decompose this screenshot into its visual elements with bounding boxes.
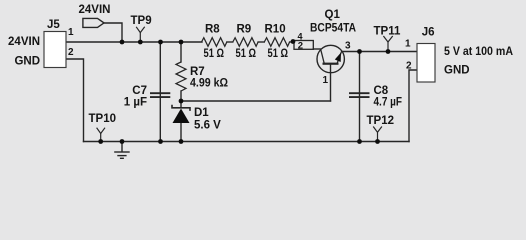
resistor R9 xyxy=(233,24,258,61)
ground xyxy=(114,142,130,159)
svg-text:GND: GND xyxy=(444,65,470,77)
svg-text:TP12: TP12 xyxy=(367,115,395,127)
svg-text:C7: C7 xyxy=(132,85,147,97)
wire: R9-R10 link xyxy=(258,41,264,43)
wire: R10 to collector node xyxy=(290,41,294,43)
test point TP9 xyxy=(131,15,152,42)
node: 24VIN flag junction xyxy=(120,40,125,45)
TP11 symbol xyxy=(383,36,392,42)
svg-text:1 µF: 1 µF xyxy=(124,97,147,109)
R7 zigzag xyxy=(176,62,186,91)
node: C7 top junction xyxy=(158,40,163,45)
Q1 body circle xyxy=(317,45,344,72)
node: TP11 junction xyxy=(386,49,391,54)
svg-text:5.6 V: 5.6 V xyxy=(194,120,221,132)
node: TP10 junction xyxy=(98,139,103,144)
svg-text:D1: D1 xyxy=(194,107,209,119)
svg-text:4.7 µF: 4.7 µF xyxy=(374,97,403,109)
svg-text:2: 2 xyxy=(68,47,74,58)
resistor R7 xyxy=(176,62,228,91)
node: C7 bottom junction xyxy=(158,139,163,144)
node: D1 bottom junction xyxy=(179,139,184,144)
base bar xyxy=(323,63,339,65)
wire: R7 bottom to node xyxy=(180,91,182,101)
wire: R8-R9 link xyxy=(227,41,233,43)
svg-text:BCP54TA: BCP54TA xyxy=(310,23,356,35)
svg-text:2: 2 xyxy=(406,60,412,71)
svg-text:2: 2 xyxy=(298,41,303,52)
wire: C8 branch xyxy=(359,52,361,142)
svg-text:24VIN: 24VIN xyxy=(8,36,40,48)
zener diode D1 xyxy=(172,105,221,132)
connector J5 xyxy=(8,19,74,68)
test point TP12 xyxy=(367,115,395,142)
svg-text:C8: C8 xyxy=(374,85,389,97)
wire: 24VIN flag to rail xyxy=(104,23,122,42)
svg-text:R7: R7 xyxy=(190,66,205,78)
node: TP12 junction xyxy=(375,139,380,144)
svg-text:4.99 kΩ: 4.99 kΩ xyxy=(190,78,228,90)
transistor Q1 xyxy=(310,9,356,86)
flag symbol xyxy=(83,18,104,27)
resistor R10 xyxy=(264,24,289,61)
D1 anode triangle xyxy=(173,109,190,124)
C8 plates xyxy=(349,93,370,97)
R8 zigzag xyxy=(202,38,227,47)
svg-text:TP9: TP9 xyxy=(131,15,152,27)
wire: base node to D1 node xyxy=(181,100,331,102)
C7 plates xyxy=(150,93,170,97)
emitter lead with arrow xyxy=(337,51,342,64)
node: ground junction xyxy=(120,139,125,144)
test point TP11 xyxy=(374,26,401,52)
collector lead xyxy=(321,49,325,64)
node: TP9 junction xyxy=(138,40,143,45)
junction dots xyxy=(98,39,390,144)
power flag 24VIN xyxy=(79,4,111,28)
svg-text:51 Ω: 51 Ω xyxy=(204,48,225,60)
D1 cathode zener bar xyxy=(172,105,190,111)
J5 body xyxy=(44,32,66,68)
pin tie box xyxy=(294,41,313,50)
node: C8 top junction xyxy=(357,49,362,54)
svg-text:5 V at 100 mA: 5 V at 100 mA xyxy=(444,46,513,58)
test point TP10 xyxy=(89,113,117,142)
wire: J5 pin2 to bottom rail xyxy=(66,59,84,142)
Q1 collector pins 4/2 tie box xyxy=(294,31,313,51)
svg-text:Q1: Q1 xyxy=(325,9,341,21)
node: C8 bottom junction xyxy=(357,139,362,144)
TP12 symbol xyxy=(373,127,382,133)
wire: C7 branch xyxy=(159,42,161,142)
resistor R8 xyxy=(202,24,227,61)
wire: collector box to Q1 xyxy=(313,48,320,50)
svg-text:1: 1 xyxy=(405,38,411,49)
svg-text:J5: J5 xyxy=(47,19,60,31)
wire: Q1 base lead down xyxy=(330,64,332,101)
wire: R7 top branch xyxy=(180,42,182,62)
svg-text:TP11: TP11 xyxy=(374,26,401,38)
R9 zigzag xyxy=(233,38,258,47)
wire: output rail Q1 emitter to J6 pin1 xyxy=(342,51,417,53)
svg-text:1: 1 xyxy=(68,27,74,38)
wire: D1 anode to bottom rail xyxy=(180,123,182,142)
svg-text:J6: J6 xyxy=(422,27,435,39)
svg-text:51 Ω: 51 Ω xyxy=(268,48,289,60)
svg-text:51 Ω: 51 Ω xyxy=(236,48,257,60)
svg-text:1: 1 xyxy=(323,75,329,86)
svg-text:GND: GND xyxy=(14,56,40,68)
wire: node to D1 cathode xyxy=(180,101,182,108)
TP9 symbol xyxy=(136,27,145,33)
connector J6 xyxy=(405,27,513,82)
svg-text:24VIN: 24VIN xyxy=(79,4,111,16)
emitter arrowhead xyxy=(335,53,341,63)
J6 body xyxy=(417,44,435,83)
TP10 symbol xyxy=(97,128,105,134)
node: collector pins junction xyxy=(291,39,296,44)
capacitor C8 xyxy=(349,85,402,109)
svg-text:R9: R9 xyxy=(237,24,252,36)
node: R7 top junction xyxy=(179,40,184,45)
svg-text:TP10: TP10 xyxy=(89,113,117,125)
wire: bottom rail up to J6 pin2 xyxy=(409,70,417,142)
wire: bottom GND rail xyxy=(84,141,410,143)
svg-text:R10: R10 xyxy=(265,24,286,36)
svg-text:3: 3 xyxy=(345,41,351,52)
wire: top rail 24VIN net J5.1 to R8 xyxy=(66,41,202,43)
svg-text:R8: R8 xyxy=(205,24,220,36)
capacitor C7 xyxy=(124,85,171,109)
R10 zigzag xyxy=(264,38,289,47)
node: D1/R7/base junction xyxy=(179,99,184,104)
